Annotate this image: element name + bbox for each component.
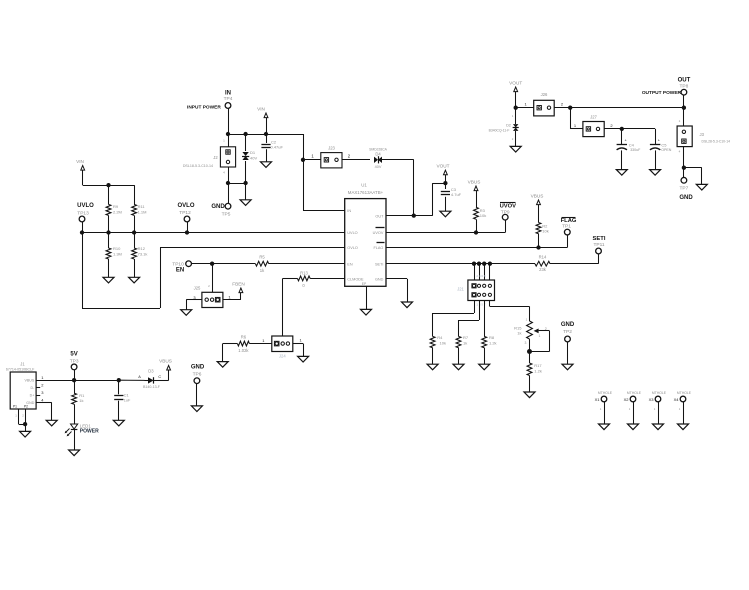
- svg-text:TP12: TP12: [179, 210, 191, 216]
- svg-text:R11: R11: [138, 204, 146, 209]
- svg-text:X2: X2: [624, 397, 630, 402]
- svg-text:2 4 6 8: 2 4 6 8: [476, 274, 486, 278]
- svg-text:EN: EN: [347, 262, 353, 266]
- svg-text:R4: R4: [437, 335, 443, 340]
- svg-text:R9: R9: [113, 204, 119, 209]
- svg-text:J23: J23: [328, 146, 335, 151]
- svg-text:10k: 10k: [542, 228, 548, 233]
- svg-text:B140-13-F: B140-13-F: [143, 385, 161, 389]
- svg-text:J26: J26: [541, 92, 548, 97]
- svg-text:UVOV: UVOV: [373, 231, 384, 235]
- svg-text:GND: GND: [191, 364, 205, 370]
- svg-text:1k: 1k: [79, 398, 83, 403]
- svg-text:FLAG: FLAG: [373, 246, 383, 250]
- svg-text:J27: J27: [590, 115, 597, 120]
- svg-text:1k: 1k: [517, 331, 521, 336]
- svg-text:TP13: TP13: [77, 211, 89, 217]
- svg-text:UVLO: UVLO: [77, 203, 94, 209]
- svg-text:R12: R12: [138, 246, 146, 251]
- svg-text:D4: D4: [375, 152, 381, 157]
- svg-text:OVLO: OVLO: [177, 203, 194, 209]
- svg-text:D+: D+: [30, 394, 35, 398]
- svg-text:CLMODE: CLMODE: [347, 278, 364, 282]
- svg-text:73.1k: 73.1k: [138, 252, 148, 257]
- svg-text:X4: X4: [674, 397, 680, 402]
- svg-text:10k: 10k: [480, 213, 486, 218]
- svg-text:0.47uF: 0.47uF: [271, 145, 284, 150]
- svg-text:P1: P1: [13, 404, 17, 408]
- svg-text:TP8: TP8: [679, 84, 688, 90]
- svg-text:FLAG: FLAG: [561, 218, 577, 224]
- svg-text:R5: R5: [259, 254, 265, 259]
- svg-text:J25: J25: [194, 286, 201, 291]
- svg-text:D1: D1: [250, 150, 256, 155]
- svg-text:TP4: TP4: [224, 96, 233, 102]
- svg-text:POWER: POWER: [80, 429, 99, 435]
- svg-text:D3: D3: [148, 369, 154, 374]
- svg-text:SETI: SETI: [375, 262, 383, 266]
- svg-text:1.2k: 1.2k: [489, 340, 497, 345]
- svg-text:2.2M: 2.2M: [113, 210, 122, 215]
- svg-text:EP: EP: [362, 282, 367, 286]
- svg-text:J1: J1: [20, 361, 25, 366]
- svg-text:VBUS: VBUS: [468, 179, 481, 184]
- svg-text:C1: C1: [124, 392, 130, 397]
- svg-text:U1: U1: [361, 182, 367, 187]
- svg-text:OPEN: OPEN: [661, 148, 672, 152]
- svg-text:1k: 1k: [463, 340, 467, 345]
- svg-text:FBEN: FBEN: [232, 281, 245, 286]
- svg-text:OUTPUT POWER: OUTPUT POWER: [642, 90, 682, 96]
- svg-text:UVLO: UVLO: [347, 231, 357, 235]
- svg-text:1.1M: 1.1M: [138, 210, 147, 215]
- svg-text:R8: R8: [489, 335, 495, 340]
- svg-text:UVOV: UVOV: [500, 204, 517, 210]
- svg-text:C5: C5: [661, 143, 667, 148]
- svg-text:VBUS: VBUS: [25, 379, 35, 383]
- svg-text:TP2: TP2: [563, 329, 572, 335]
- svg-text:2: 2: [545, 327, 547, 331]
- svg-text:40V: 40V: [375, 165, 382, 169]
- svg-text:OVLO: OVLO: [347, 246, 358, 250]
- svg-text:67714-0510BCLF: 67714-0510BCLF: [6, 367, 35, 371]
- svg-text:DSL28-5.3-C10-14: DSL28-5.3-C10-14: [702, 140, 731, 144]
- svg-text:1.2k: 1.2k: [534, 368, 542, 373]
- svg-text:MTHOLE: MTHOLE: [627, 391, 642, 395]
- svg-text:OUT: OUT: [375, 214, 384, 218]
- svg-text:VBUS: VBUS: [159, 358, 172, 363]
- svg-text:J2: J2: [213, 155, 218, 160]
- svg-text:C: C: [158, 375, 161, 379]
- svg-text:R13: R13: [300, 270, 308, 275]
- svg-text:C4: C4: [629, 143, 635, 148]
- svg-text:23k: 23k: [539, 267, 547, 272]
- svg-text:R17: R17: [534, 363, 542, 368]
- svg-text:1uF: 1uF: [124, 399, 131, 403]
- svg-text:R6: R6: [241, 335, 247, 340]
- svg-text:MTHOLE: MTHOLE: [677, 391, 692, 395]
- svg-text:TP1: TP1: [562, 224, 571, 230]
- svg-text:J21: J21: [457, 287, 464, 292]
- svg-text:EN: EN: [176, 268, 184, 274]
- svg-text:J3: J3: [700, 132, 705, 137]
- svg-text:1: 1: [539, 334, 541, 338]
- svg-text:R14: R14: [539, 254, 547, 259]
- svg-text:INPUT POWER: INPUT POWER: [187, 105, 221, 111]
- svg-text:TP3: TP3: [70, 358, 79, 364]
- svg-text:IN: IN: [347, 209, 351, 213]
- svg-text:OUT: OUT: [678, 77, 691, 83]
- svg-text:TP9: TP9: [501, 209, 510, 215]
- svg-text:SETI: SETI: [593, 236, 606, 242]
- svg-text:VOUT: VOUT: [509, 80, 522, 85]
- svg-text:VIN: VIN: [76, 159, 84, 164]
- svg-text:P2: P2: [24, 404, 28, 408]
- svg-text:1.02k: 1.02k: [238, 348, 249, 353]
- svg-text:TP6: TP6: [193, 372, 202, 378]
- svg-text:1.3M: 1.3M: [113, 252, 122, 257]
- svg-text:GND: GND: [561, 322, 575, 328]
- svg-text:TP7: TP7: [679, 186, 688, 192]
- svg-text:J24: J24: [279, 354, 286, 359]
- svg-text:R10: R10: [113, 246, 121, 251]
- svg-text:D2: D2: [506, 123, 511, 127]
- svg-text:5V: 5V: [70, 352, 77, 358]
- svg-text:4.7uF: 4.7uF: [451, 192, 462, 197]
- svg-text:DSL18-5.3-C10-14: DSL18-5.3-C10-14: [183, 164, 213, 168]
- svg-text:MTHOLE: MTHOLE: [598, 391, 613, 395]
- svg-text:TP5: TP5: [222, 212, 231, 218]
- svg-text:VBUS: VBUS: [531, 193, 544, 198]
- svg-text:40V: 40V: [250, 155, 257, 160]
- svg-text:LED1: LED1: [80, 423, 92, 428]
- svg-text:MAX17613AATB+: MAX17613AATB+: [348, 190, 384, 195]
- svg-text:GND: GND: [375, 278, 384, 282]
- svg-text:GND: GND: [211, 204, 225, 210]
- svg-text:TP11: TP11: [593, 242, 604, 248]
- svg-text:TP10: TP10: [172, 261, 184, 267]
- svg-text:GND: GND: [679, 195, 693, 201]
- svg-text:A: A: [138, 375, 141, 379]
- svg-text:330uF: 330uF: [630, 148, 641, 152]
- svg-text:B340CQ-11-F: B340CQ-11-F: [489, 128, 510, 132]
- svg-text:3: 3: [525, 341, 527, 345]
- svg-text:VIN: VIN: [257, 106, 265, 111]
- svg-text:10k: 10k: [440, 340, 446, 345]
- svg-text:MTHOLE: MTHOLE: [652, 391, 667, 395]
- svg-text:VOUT: VOUT: [436, 164, 449, 169]
- svg-text:R7: R7: [463, 335, 469, 340]
- svg-text:X3: X3: [649, 397, 655, 402]
- svg-text:IN: IN: [225, 90, 231, 96]
- svg-text:X1: X1: [595, 397, 601, 402]
